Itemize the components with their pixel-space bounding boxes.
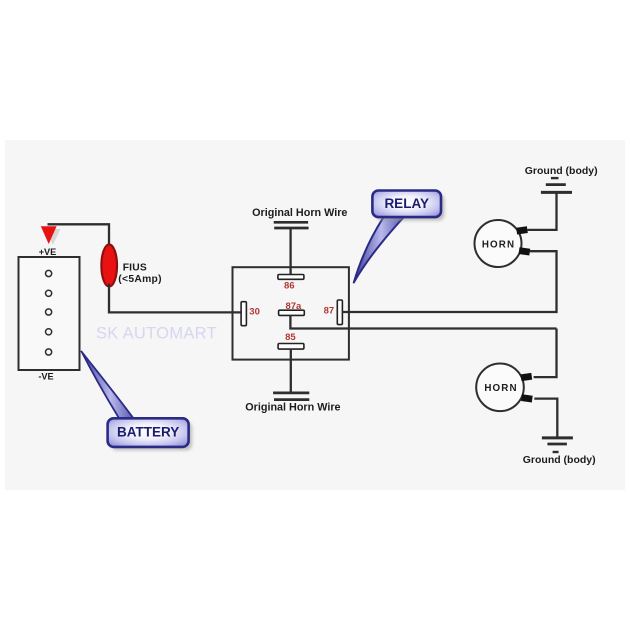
wire battery to fuse <box>48 224 110 247</box>
content panel <box>5 140 625 490</box>
horn H2 <box>476 364 533 412</box>
wire pin 86 to top connector <box>289 228 291 276</box>
svg-text:-VE: -VE <box>38 371 53 381</box>
fuse F1 <box>101 245 117 287</box>
svg-text:RELAY: RELAY <box>384 196 429 211</box>
pin 87a <box>279 310 305 315</box>
callout tail (RELAY) <box>354 217 404 283</box>
svg-text:SK AUTOMART: SK AUTOMART <box>96 325 217 343</box>
svg-text:86: 86 <box>284 281 295 292</box>
top original horn wire connector <box>274 222 309 228</box>
svg-text:Ground (body): Ground (body) <box>523 454 596 466</box>
svg-text:HORN: HORN <box>482 239 515 250</box>
svg-text:+VE: +VE <box>39 247 57 257</box>
wire pin 87 to horn H1 <box>342 251 556 312</box>
wire pin 85 to bottom connector <box>290 349 292 393</box>
svg-text:Ground (body): Ground (body) <box>525 165 598 177</box>
svg-text:(<5Amp): (<5Amp) <box>118 274 162 285</box>
svg-text:Original Horn Wire: Original Horn Wire <box>245 402 340 414</box>
wire fuse to relay pin 30 <box>109 285 241 313</box>
svg-text:FIUS: FIUS <box>123 263 147 274</box>
ground (body) top <box>541 178 572 192</box>
label FIUS (<5Amp) <box>118 263 162 285</box>
pin 30 <box>241 302 246 326</box>
callout tail (BATTERY) <box>82 352 135 420</box>
pin 87 <box>337 300 342 325</box>
svg-text:30: 30 <box>249 307 260 318</box>
ground (body) bottom <box>542 438 573 452</box>
relay body <box>233 267 349 359</box>
wire horn H2 lower terminal to ground <box>534 399 557 437</box>
wire (vertical to horn H2 upper terminal) <box>534 329 557 378</box>
callout RELAY <box>372 191 444 221</box>
svg-text:87: 87 <box>324 305 335 316</box>
arrow shadow <box>46 229 61 245</box>
callout BATTERY <box>108 418 193 450</box>
horn H1 <box>475 220 531 267</box>
svg-text:BATTERY: BATTERY <box>117 425 179 440</box>
wire horn H1 upper terminal to ground <box>528 194 557 230</box>
wire pin 87a to horn H2 <box>290 315 556 329</box>
pin 86 <box>278 275 304 280</box>
battery B1 <box>19 257 80 370</box>
pin 85 <box>278 344 304 350</box>
bottom original horn wire connector <box>273 393 309 400</box>
arrow to +VE terminal <box>41 226 57 244</box>
svg-text:HORN: HORN <box>484 383 517 394</box>
svg-text:Original Horn Wire: Original Horn Wire <box>252 207 347 219</box>
svg-text:85: 85 <box>285 332 296 343</box>
